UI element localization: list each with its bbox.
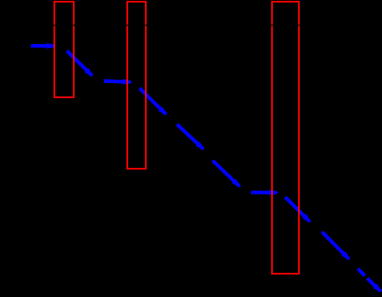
rectangle R2 xyxy=(127,2,146,169)
arrow segment 8 xyxy=(284,196,311,223)
dash segment 10 xyxy=(357,268,366,278)
arrow segment 6 xyxy=(211,159,240,187)
arrow segment 2 xyxy=(66,50,94,77)
arrow segment 5 xyxy=(176,123,205,150)
arrow segment 7 xyxy=(251,190,279,196)
arrow segment 1 xyxy=(31,43,57,49)
arrow segment 4 xyxy=(138,87,167,116)
rectangle R1 xyxy=(54,2,73,98)
notch line xyxy=(0,24,382,26)
rectangle R3 xyxy=(272,2,299,274)
arrow segment 9 xyxy=(321,231,350,261)
arrow segment 3 xyxy=(104,79,133,85)
arrow segment 11 xyxy=(366,277,382,293)
